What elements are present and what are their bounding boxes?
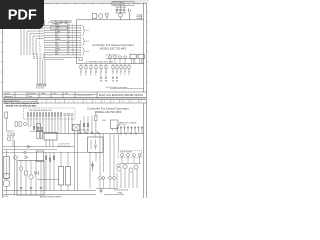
svg-text:FUEL: FUEL [55, 24, 59, 26]
svg-text:Scale: Scale [41, 93, 46, 95]
inline ticks on ladder wires [69, 27, 70, 52]
connector J2 brace [82, 38, 85, 45]
svg-text:TS: TS [67, 39, 69, 41]
svg-text:6: 6 [86, 101, 87, 103]
diode D3 [65, 21, 68, 24]
transistor Q9 [134, 165, 138, 169]
wire down run 9 [42, 60, 44, 85]
svg-text:12: 12 [72, 51, 74, 53]
svg-text:B+ B- GND: B+ B- GND [36, 87, 45, 89]
wire row 152 [3, 151, 103, 153]
svg-text:1 2 3 4 5 6 7 8 9: 1 2 3 4 5 6 7 8 9 [58, 143, 70, 145]
wire left branch 3 [27, 30, 44, 32]
bottom bus 2 [3, 194, 96, 196]
svg-text:B+ 12V: B+ 12V [3, 196, 9, 198]
node cluster labels [33, 54, 46, 60]
svg-text:HIGH: HIGH [55, 44, 59, 46]
svg-text:11: 11 [39, 49, 41, 51]
connector J3 brace [82, 48, 85, 55]
sheet1 right zone ticks [147, 12, 149, 82]
svg-text:MODEL ESC720 MK3: MODEL ESC720 MK3 [95, 110, 122, 114]
svg-text:P9: P9 [33, 58, 35, 60]
wire bottom right [110, 88, 144, 90]
LED L2 [114, 56, 117, 59]
wire verticals mid right [110, 134, 114, 177]
svg-text:WL: WL [67, 36, 69, 38]
wire vertical bus mid [76, 21, 78, 64]
diode D10 [105, 14, 108, 18]
cap marks on bus [121, 132, 136, 135]
sheet1 inner right border [143, 3, 145, 92]
sheet2 ruler ticks [37, 99, 138, 103]
resistor bank below rail [80, 64, 130, 72]
svg-text:OP: OP [67, 31, 69, 33]
wire cap bottom bus [116, 12, 127, 14]
svg-text:ESC720-ESC620 MK3B 63200: ESC720-ESC620 MK3B 63200 [99, 93, 143, 97]
wire bus turn 1 [28, 125, 31, 127]
bus right segment [104, 194, 124, 196]
comp X2 [37, 124, 41, 131]
svg-text:PL1: PL1 [86, 30, 89, 32]
small comp above rail [79, 58, 82, 61]
wire row 179 [37, 179, 59, 181]
svg-text:LED DISPLAY BOARD PCB: LED DISPLAY BOARD PCB [29, 109, 52, 112]
svg-text:C5: C5 [116, 72, 118, 74]
wire lower rail left2 [44, 58, 64, 60]
svg-text:7: 7 [95, 101, 96, 103]
svg-text:Drawing Number: Drawing Number [77, 94, 92, 96]
sheet1 top border [3, 2, 147, 4]
inductor L7 [99, 13, 103, 18]
svg-text:Drawn: Drawn [5, 93, 10, 95]
svg-text:This is the circuit diagram of: This is the circuit diagram of diesel [4, 102, 39, 105]
svg-text:OIL: OIL [55, 41, 58, 43]
wire down run 7 [37, 60, 39, 85]
svg-text:12: 12 [39, 51, 41, 53]
transistor Q6 [117, 167, 121, 171]
diode D11 on wire [28, 145, 31, 148]
svg-text:P4: P4 [43, 54, 45, 56]
svg-text:Q1 Q2 Q3 Q4 Q5 Q6: Q1 Q2 Q3 Q4 Q5 Q6 [114, 190, 128, 192]
svg-text:OUTPUT DRIVERS: OUTPUT DRIVERS [120, 152, 132, 154]
wire ladder extensions [77, 26, 81, 55]
wire main frame top [77, 20, 144, 21]
title block sheet1 [3, 92, 147, 98]
small comps left mid [15, 122, 27, 127]
comp pairs right mid [99, 177, 116, 180]
svg-text:3: 3 [59, 101, 60, 103]
svg-text:MODEL ESC720 ESC620 MK3: MODEL ESC720 ESC620 MK3 [6, 106, 37, 108]
svg-text:P6: P6 [36, 56, 38, 58]
svg-text:Date: Date [29, 95, 33, 98]
svg-text:HT: HT [67, 44, 69, 46]
wire verticals mid [75, 116, 119, 191]
svg-text:12: 12 [140, 101, 142, 103]
transistor Q7 [123, 164, 127, 168]
relay pin stems [132, 59, 143, 64]
svg-text:5: 5 [77, 101, 78, 103]
main module box [17, 161, 44, 196]
bridge stack left [7, 133, 11, 140]
display board dashed box [24, 108, 76, 119]
wire left branch 4 [30, 33, 44, 35]
sheet2 ruler numbers [41, 101, 142, 103]
svg-text:LOW: LOW [55, 46, 59, 48]
relay K3 [130, 54, 136, 58]
resistor 120R [95, 116, 97, 121]
svg-text:MODEL ESC720 MK3: MODEL ESC720 MK3 [100, 47, 127, 51]
svg-text:Controller For Diesel Generato: Controller For Diesel Generator [87, 106, 129, 110]
wire driver collector rail [120, 163, 141, 165]
wire top right feed [116, 6, 127, 8]
PDF badge [0, 0, 44, 29]
resistor R9 [59, 167, 64, 186]
small comp in box [25, 171, 28, 175]
LED L3b [124, 56, 127, 59]
wire left branch 2 [24, 28, 44, 30]
wire down run 5 [32, 36, 34, 55]
wire T1 feed [94, 134, 96, 137]
wire end pins [79, 25, 82, 55]
lamp L6 [29, 175, 33, 179]
transistor Q3 [121, 154, 124, 157]
svg-text:10: 10 [39, 46, 41, 48]
svg-text:10: 10 [72, 46, 74, 48]
svg-text:RL1 RL2 RL3 OUT: RL1 RL2 RL3 OUT [106, 54, 119, 56]
header frame box [51, 26, 68, 29]
wire down run 10 [44, 60, 46, 85]
wire frame to ladder [43, 20, 45, 26]
wire note stem [120, 6, 122, 8]
svg-text:PL2: PL2 [86, 41, 89, 43]
driver stems [122, 156, 140, 163]
svg-text:P3: P3 [40, 54, 42, 56]
LED stems [110, 59, 125, 64]
transistor Q5b [138, 154, 141, 157]
wire down run 6 [35, 39, 37, 56]
svg-text:SOL: SOL [67, 24, 70, 26]
capacitor C9 [40, 132, 42, 139]
wire ladder [44, 26, 77, 55]
wire down run 2 [23, 29, 25, 56]
meter M2 [4, 173, 10, 179]
svg-text:Size: Size [53, 93, 57, 95]
svg-text:R5: R5 [100, 72, 102, 74]
svg-text:B+: B+ [67, 51, 69, 53]
page background [0, 0, 149, 198]
wire F1 down [6, 118, 14, 131]
svg-text:8: 8 [104, 101, 105, 103]
top grey strip above sheet [0, 0, 149, 3]
svg-text:R1: R1 [80, 72, 82, 74]
connector right edge [137, 14, 142, 20]
svg-text:10: 10 [122, 101, 124, 103]
capacitor C2 [119, 7, 122, 13]
wire above ladder [50, 20, 72, 22]
module box mid [37, 151, 44, 162]
wire down run 8 [39, 60, 41, 85]
svg-text:P1: P1 [33, 54, 35, 56]
wire left branch 1 [21, 25, 44, 27]
wire main horizontal bus [44, 133, 144, 135]
wire left branch 6 [36, 38, 44, 40]
sheet1 right outer border [146, 3, 148, 98]
svg-text:Approved: Approved [5, 95, 13, 98]
svg-text:ST: ST [67, 27, 69, 29]
battery B1 [35, 171, 38, 175]
svg-text:PL3: PL3 [86, 51, 89, 53]
diode D6 [91, 132, 94, 134]
wires to bus [7, 150, 55, 195]
transformer T2 [4, 157, 9, 179]
transistor Q1 [119, 13, 123, 17]
inline rects mid verticals [45, 156, 55, 161]
svg-text:MAINS VOLT SENSE: MAINS VOLT SENSE [119, 121, 137, 124]
svg-text:Controller For Diesel Generato: Controller For Diesel Generator [92, 43, 134, 47]
wire left branch 5 [33, 35, 44, 37]
svg-text:1: 1 [41, 101, 42, 103]
sheet2 ruler row [3, 102, 147, 104]
svg-text:R6: R6 [105, 72, 107, 74]
title block sheet1 text [5, 93, 69, 98]
svg-text:L N E 1 2 3 4 5: L N E 1 2 3 4 5 [117, 125, 126, 127]
sheet1 left zone ticks [1, 12, 3, 82]
transformer T1 [88, 137, 104, 152]
sheet1 bottom border [3, 97, 147, 99]
diode D7 [97, 132, 100, 134]
svg-text:R4: R4 [95, 72, 97, 74]
svg-text:C8: C8 [128, 72, 130, 74]
second stage drops [100, 76, 118, 81]
svg-text:13: 13 [72, 54, 74, 56]
svg-text:11: 11 [72, 49, 74, 51]
diode D1 [55, 21, 58, 24]
wire caps top [30, 130, 44, 132]
pilot circle on wire [24, 151, 27, 154]
svg-text:C6: C6 [120, 72, 122, 74]
terminal lugs [37, 84, 46, 86]
sheet2 left header box [3, 99, 37, 101]
wire transformer sec stems [90, 152, 96, 188]
fuse F1 left [5, 112, 8, 118]
diode D5 [85, 132, 88, 134]
diode D9 [25, 156, 28, 159]
LED L1 [109, 56, 112, 59]
wire 120R stems [95, 113, 97, 134]
X1 pins [113, 129, 117, 131]
ladder right pin labels [72, 24, 74, 55]
capacitor C1 [116, 7, 119, 13]
motor M1 [14, 156, 18, 160]
wire down run 4 [29, 34, 31, 56]
wire bus turn 2 [34, 127, 40, 129]
meter M3 [3, 180, 10, 187]
module X1 [111, 120, 119, 129]
svg-text:4: 4 [68, 101, 69, 103]
wire r stems [61, 152, 68, 190]
box internal wires [21, 161, 41, 196]
svg-text:D1 D2 D3 D4: D1 D2 D3 D4 [80, 130, 89, 132]
svg-text:PU: PU [67, 49, 69, 51]
wire lower rail left [44, 57, 79, 59]
svg-text:OP: OP [67, 34, 69, 36]
wire hbus left 1 [3, 146, 75, 148]
sheet1 top zone ticks [48, 3, 138, 5]
ladder net labels [55, 24, 70, 55]
svg-text:R3: R3 [90, 72, 92, 74]
LED L4 [12, 133, 15, 136]
Q wires down [117, 169, 137, 188]
svg-text:STOP: STOP [55, 29, 59, 31]
svg-text:CONNECT TO ENGINE SENDERS: CONNECT TO ENGINE SENDERS [48, 22, 72, 24]
connector J1 brace [82, 26, 85, 36]
dashed box PSU [118, 150, 142, 158]
sheet2 borders [3, 99, 147, 198]
transistor Q8 [129, 168, 133, 172]
relay K6 [44, 133, 57, 141]
svg-text:P2: P2 [36, 54, 38, 56]
wire collector bus [96, 188, 118, 190]
svg-text:R2: R2 [85, 72, 87, 74]
board wires down [28, 116, 72, 134]
svg-text:2: 2 [50, 101, 51, 103]
svg-text:9: 9 [113, 101, 114, 103]
transistor Q4 [127, 154, 130, 157]
transistor Q10 [117, 164, 120, 167]
wire left long vertical [14, 140, 16, 195]
svg-text:Rev: Rev [65, 93, 68, 95]
svg-text:P5: P5 [33, 56, 35, 58]
wire down run 3 [26, 31, 28, 55]
sheet1 left border [2, 3, 4, 98]
svg-text:Checked: Checked [29, 93, 36, 95]
ground symbol [99, 189, 103, 193]
capacitor C8 [37, 132, 39, 139]
inline comps on board wires [33, 127, 43, 131]
relay box small [93, 14, 97, 19]
ladder pin numbers [39, 24, 41, 53]
svg-text:PDF: PDF [8, 8, 37, 24]
LED resistor row [27, 112, 62, 118]
lamp L5 [19, 167, 23, 171]
svg-text:PS: PS [67, 41, 69, 43]
wire Q1 stem [120, 17, 122, 20]
transistor Q5 [133, 154, 136, 157]
capacitor C3 [123, 7, 126, 13]
terminal row TB1 [117, 126, 143, 133]
diode D2 [60, 21, 63, 24]
svg-text:P7: P7 [40, 56, 42, 58]
wire hbus left 2 [3, 149, 57, 151]
svg-text:C7: C7 [124, 72, 126, 74]
resistor bank labels [80, 72, 130, 76]
resistor R10 [66, 167, 71, 186]
ladder left end ticks [44, 25, 46, 55]
svg-text:SOL: SOL [67, 29, 70, 31]
wire down run 1 [20, 26, 22, 55]
svg-text:11: 11 [131, 101, 133, 103]
LED L3 [119, 56, 122, 59]
ground marks in box [20, 188, 43, 189]
relay K4 [138, 54, 144, 58]
bottom bus 1 [3, 190, 96, 192]
relay K5 [73, 125, 80, 131]
inline rects on wires [83, 124, 89, 127]
K6 pin wires [46, 140, 53, 147]
diode D4 [79, 132, 82, 134]
zener D8 [91, 162, 94, 171]
svg-text:C4: C4 [112, 72, 114, 74]
LED diodes in box right [64, 113, 73, 115]
note box top right [112, 1, 134, 5]
connector ref labels [86, 30, 89, 53]
wire L4 [12, 136, 14, 147]
wire led rail [106, 58, 136, 60]
capacitor C10 polarized [129, 9, 131, 20]
wire component rail [77, 63, 144, 65]
